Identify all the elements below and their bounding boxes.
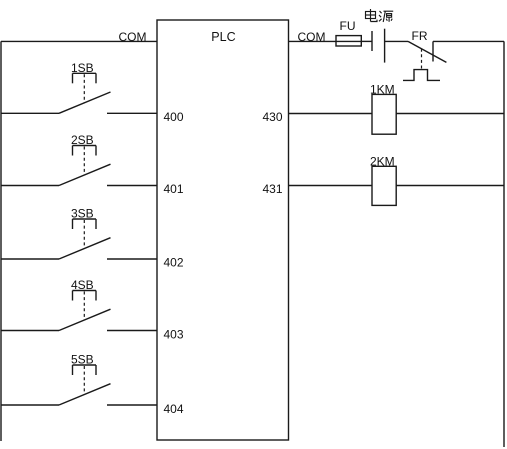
wire: fuse to power source	[361, 40, 372, 42]
wire: 1SB to terminal 400	[107, 112, 157, 114]
PLC controller box U1	[157, 20, 289, 440]
pushbutton 4SB	[59, 278, 111, 330]
power source battery 电源	[366, 9, 394, 63]
svg-text:1SB: 1SB	[71, 61, 94, 75]
svg-text:430: 430	[263, 110, 283, 124]
contactor coil 1KM	[370, 83, 396, 135]
wire: 2KM to right bus	[396, 185, 504, 187]
wire: 2SB to terminal 401	[107, 185, 157, 187]
svg-text:PLC: PLC	[211, 30, 235, 44]
svg-text:403: 403	[164, 328, 184, 342]
svg-text:5SB: 5SB	[71, 353, 94, 367]
right bus wire	[503, 41, 505, 447]
svg-text:401: 401	[164, 182, 184, 196]
wire: bus to 1SB	[1, 112, 59, 114]
svg-text:400: 400	[164, 110, 184, 124]
wire: 3SB to terminal 402	[107, 258, 157, 260]
wire: 4SB to terminal 403	[107, 330, 157, 332]
wire: power source to FR	[385, 40, 408, 42]
svg-text:FR: FR	[412, 29, 428, 43]
contactor coil 2KM	[370, 155, 396, 206]
svg-text:COM: COM	[119, 30, 147, 44]
wire: bus to 2SB	[1, 185, 59, 187]
left bus wire	[0, 41, 2, 441]
wire: FR to right bus	[433, 40, 504, 42]
wire: bus to 5SB	[1, 404, 59, 406]
wire: terminal 431 to 2KM	[289, 185, 373, 187]
svg-text:402: 402	[164, 256, 184, 270]
svg-text:1KM: 1KM	[370, 83, 395, 97]
thermal relay NC contact FR	[403, 29, 446, 80]
wire: terminal 430 to 1KM	[289, 113, 373, 115]
svg-text:2SB: 2SB	[71, 133, 94, 147]
pushbutton 2SB	[59, 133, 111, 185]
svg-text:FU: FU	[340, 19, 356, 33]
wire: 1KM to right bus	[396, 113, 504, 115]
svg-text:404: 404	[164, 402, 184, 416]
wire: bus to 4SB	[1, 330, 59, 332]
wire: bus to 3SB	[1, 258, 59, 260]
wire: left bus to PLC COM	[1, 40, 157, 42]
svg-text:4SB: 4SB	[71, 278, 94, 292]
svg-text:431: 431	[263, 182, 283, 196]
pushbutton 1SB	[59, 61, 111, 113]
svg-text:3SB: 3SB	[71, 207, 94, 221]
fuse FU	[336, 19, 361, 46]
pushbutton 5SB	[59, 353, 111, 405]
pushbutton 3SB	[59, 207, 111, 259]
wire: 5SB to terminal 404	[107, 404, 157, 406]
wire: PLC COM to fuse FU	[289, 40, 337, 42]
svg-text:2KM: 2KM	[370, 155, 395, 169]
